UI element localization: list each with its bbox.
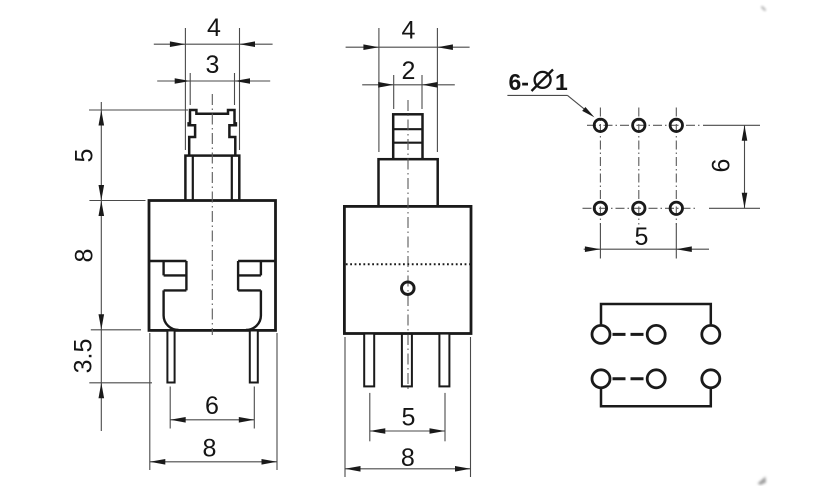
dim 5 (hole pattern) [584, 223, 709, 259]
hole A2 [633, 119, 645, 131]
svg-text:6-: 6- [509, 69, 529, 95]
contact B3 [702, 370, 720, 388]
internal latch left [149, 261, 186, 330]
faint watermark smudge bottom-right [758, 477, 767, 486]
dashed link top row [613, 333, 645, 336]
leader line to hole A1 [507, 95, 594, 117]
upper section (side) [379, 159, 438, 206]
dim 8 (body width, left view) [150, 333, 277, 470]
contact B1 [592, 370, 610, 388]
hole A1 [594, 119, 606, 131]
svg-text:5: 5 [635, 223, 649, 251]
dim 4 (middle view top) [346, 17, 470, 153]
pin left (front view) [167, 331, 174, 383]
plunger lower section [185, 156, 239, 201]
left vertical dimension chain 5 / 8 / 3.5 [70, 102, 188, 431]
plunger slot inner line left [192, 157, 194, 201]
faint tick top-right [762, 7, 766, 11]
column 1 centerline [599, 108, 601, 225]
stem [393, 114, 422, 159]
svg-text:3.5: 3.5 [70, 339, 98, 374]
contact B2 [647, 370, 665, 388]
svg-text:5: 5 [71, 149, 99, 163]
pin 1 (side view) [364, 334, 374, 387]
hole B2 [633, 202, 645, 214]
bottom bracket wire [601, 389, 711, 406]
dim 3 (cap width) [157, 51, 270, 105]
svg-text:5: 5 [402, 404, 416, 432]
contact T3 [702, 325, 720, 343]
dim 5 (pin spacing, middle view) [370, 393, 445, 441]
column 2 centerline [638, 108, 640, 225]
hole B1 [594, 202, 606, 214]
svg-text:1: 1 [555, 69, 568, 95]
hole A3 [670, 119, 682, 131]
column 3 centerline [675, 108, 677, 225]
dim 6 (pin spacing, left view) [170, 387, 254, 429]
row 2 centerline [583, 207, 698, 209]
top bracket wire [601, 304, 711, 324]
svg-text:4: 4 [402, 17, 416, 45]
pin 3 (side view) [439, 334, 449, 387]
dashed link bottom row [613, 377, 645, 380]
svg-text:6: 6 [708, 159, 736, 173]
svg-text:8: 8 [203, 435, 217, 463]
plunger cap [189, 110, 236, 156]
svg-text:8: 8 [71, 249, 99, 263]
internal latch right [238, 261, 275, 330]
svg-text:6: 6 [205, 392, 219, 420]
centerline left view [211, 94, 213, 335]
dotted parting line [346, 263, 470, 265]
stem divider 2 [393, 142, 422, 144]
dim 4 (top of left view) [154, 14, 273, 150]
dim 8 (body width, middle view) [345, 337, 471, 477]
pin 2 (side view) [402, 334, 412, 387]
label 6-diameter-1 [509, 69, 569, 95]
dim 2 (stem width) [362, 57, 455, 109]
pin right (front view) [250, 331, 258, 383]
svg-text:4: 4 [207, 14, 221, 42]
contact T2 [647, 325, 665, 343]
dim 6 (hole pattern vertical) [703, 125, 760, 208]
hole B3 [670, 202, 682, 214]
side hole circle [402, 282, 415, 295]
body (side) [344, 206, 471, 333]
svg-text:2: 2 [402, 57, 416, 85]
svg-text:8: 8 [401, 444, 415, 472]
centerline middle view [407, 100, 409, 391]
contact T1 [592, 325, 610, 343]
row 1 centerline [587, 124, 700, 126]
body outline [149, 201, 276, 331]
stem divider 1 [393, 128, 422, 130]
svg-text:3: 3 [206, 51, 220, 79]
plunger slot inner line right [231, 157, 233, 201]
